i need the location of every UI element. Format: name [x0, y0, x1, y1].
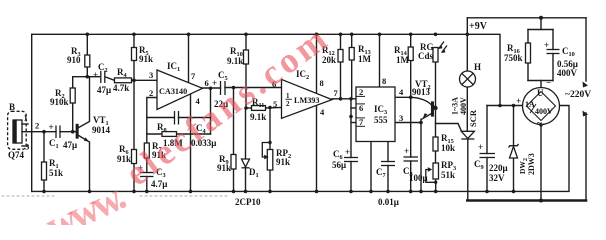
svg-text:SCR: SCR	[468, 109, 478, 127]
svg-text:LM393: LM393	[294, 96, 319, 105]
junction dots ground rail	[42, 190, 46, 194]
wire 555 pin3 output	[395, 122, 421, 124]
resistor R1 51k	[42, 162, 47, 180]
svg-text:100μ: 100μ	[409, 173, 428, 183]
svg-text:~: ~	[537, 118, 542, 128]
svg-text:910: 910	[67, 55, 81, 65]
svg-text:2DW3: 2DW3	[527, 153, 536, 175]
capacitor C5 22u	[220, 81, 222, 95]
wire R2 branch	[72, 103, 74, 132]
wire 555 pin7 stub	[351, 122, 356, 124]
junction dot pin3 emitter node	[419, 121, 423, 125]
transistor VT2 emitter arrow	[423, 113, 428, 119]
svg-text:9.1k: 9.1k	[250, 112, 266, 122]
wire DW2 branch	[513, 106, 515, 146]
wire R7 to C3	[146, 158, 148, 173]
wire SCR cathode down	[467, 139, 469, 201]
svg-text:750k: 750k	[504, 53, 523, 63]
wire C9 branch	[486, 106, 488, 154]
svg-text:910k: 910k	[50, 97, 69, 107]
wire power box right edge lower	[585, 113, 587, 201]
svg-text:H: H	[474, 62, 481, 72]
junction dot RP2 wiper tie	[268, 141, 271, 144]
svg-text:R4: R4	[117, 67, 128, 79]
svg-text:9014: 9014	[92, 125, 111, 135]
transistor VT2 9013 bar	[432, 102, 434, 116]
wire VT1 collector	[78, 77, 90, 128]
wire IC1 pin7	[188, 34, 190, 83]
wire C8 branch	[410, 97, 412, 157]
wire R15 to RP3	[435, 151, 437, 163]
svg-text:400V: 400V	[557, 68, 578, 78]
svg-text:1M: 1M	[358, 54, 372, 64]
resistor R5 91k	[132, 48, 137, 61]
wire IC1 output to C5	[203, 87, 221, 89]
thyristor SCR	[461, 131, 474, 138]
transistor VT2 emitter line	[421, 113, 433, 120]
svg-text:32V: 32V	[489, 173, 505, 183]
junction dot R2 base node	[71, 130, 75, 134]
svg-text:Cds: Cds	[418, 51, 434, 61]
wire RP2 branch	[269, 108, 271, 150]
svg-text:+: +	[212, 78, 217, 88]
svg-text:400V: 400V	[535, 107, 553, 116]
wire power box top line	[467, 17, 586, 19]
wire power heavy bottom rail	[467, 199, 586, 202]
wire VT2 base curve	[411, 97, 432, 105]
resistor R4 4.7k	[115, 78, 132, 83]
resistor R12 20k	[338, 50, 343, 63]
wire main +9V top rail	[32, 34, 500, 105]
transistor VT1 9014 bar	[76, 125, 78, 139]
wire RP3 to ground	[435, 179, 437, 191]
svg-text:4: 4	[320, 107, 325, 117]
svg-text:4.7k: 4.7k	[113, 83, 129, 93]
junction dot R10 R11 D1 node	[244, 106, 248, 110]
capacitor C3 4.7u	[140, 172, 154, 174]
resistor R15 10k	[433, 137, 438, 151]
svg-text:C7: C7	[376, 167, 386, 179]
resistor R9 91k	[231, 155, 236, 170]
wire DC plus rail	[487, 105, 523, 107]
bridge rectifier diamond	[527, 92, 556, 121]
svg-text:1: 1	[286, 92, 290, 100]
junction dot 555 pin67 tie	[349, 115, 353, 119]
wire R5 bottom to node A	[133, 61, 135, 81]
wire C1 to VT1 base	[60, 131, 76, 133]
svg-text:1M: 1M	[396, 55, 410, 65]
wire R12 branch	[340, 34, 342, 49]
wire R13 branch	[351, 34, 353, 47]
comparator IC2 LM393 triangle	[282, 79, 333, 118]
junction dot power top	[539, 16, 543, 20]
wire C5 to IC2 pin6	[225, 87, 282, 89]
terminal tick bottom	[583, 111, 589, 117]
microphone B Q74 dashed case	[8, 111, 27, 149]
wire R14 branch	[410, 34, 412, 47]
svg-text:6: 6	[205, 78, 209, 88]
wire lamp to SCR anode	[466, 87, 468, 131]
svg-text:+9V: +9V	[469, 21, 488, 32]
svg-text:3: 3	[149, 70, 153, 80]
wire C10 legs	[552, 30, 554, 50]
wire R16 legs	[527, 30, 529, 44]
svg-text:2CP10: 2CP10	[235, 197, 261, 207]
svg-text:6: 6	[359, 103, 363, 113]
wire main box left edge	[31, 34, 33, 191]
wire power box right edge upper	[585, 18, 587, 81]
svg-text:47μ: 47μ	[63, 140, 77, 150]
resistor R8 1.8M	[162, 132, 177, 137]
junction dot R3 collector node	[86, 75, 90, 79]
svg-text:51k: 51k	[441, 170, 455, 180]
svg-text:400V: 400V	[459, 97, 468, 115]
svg-text:+: +	[345, 147, 350, 157]
svg-text:4: 4	[399, 87, 404, 97]
wire feedback right side to output	[210, 88, 212, 134]
wire D1 branch	[245, 108, 247, 158]
svg-text:9013: 9013	[412, 87, 431, 97]
junction dot bridge bottom rail	[539, 199, 543, 203]
transistor VT2 collector stub	[433, 106, 435, 109]
capacitor C10 0.56u	[547, 49, 560, 51]
terminal tick top	[583, 82, 589, 88]
junction dot DC rail corner	[498, 104, 502, 108]
resistor R2 910k	[70, 88, 75, 103]
svg-text:0.01μ: 0.01μ	[378, 197, 399, 207]
svg-text:C1: C1	[49, 138, 59, 150]
wire feedback top branch C4	[147, 117, 174, 119]
wire mic pin1 stub	[22, 123, 28, 125]
svg-text:2: 2	[35, 121, 39, 131]
junction dot R13 trigger node	[349, 97, 353, 101]
wire 555 pin6 stub	[351, 107, 356, 109]
lamp H	[460, 71, 476, 87]
svg-text:91k: 91k	[139, 54, 153, 64]
wire mic pin3 stub	[22, 145, 28, 147]
svg-text:91k: 91k	[217, 163, 231, 173]
potentiometer RP2 91k	[267, 150, 273, 171]
svg-text:~220V: ~220V	[565, 90, 591, 100]
svg-text:+: +	[49, 122, 54, 132]
wire SCR gate	[436, 124, 462, 132]
svg-text:IC1: IC1	[167, 61, 180, 73]
svg-text:91k: 91k	[276, 157, 290, 167]
op-amp IC1 CA3140 triangle	[157, 70, 203, 110]
svg-text:C9: C9	[474, 159, 484, 171]
wire VT2 collector-R15 line	[435, 108, 437, 137]
svg-text:5: 5	[273, 99, 277, 109]
wire 555 ground pin1	[370, 142, 372, 192]
wire bridge bottom to heavy rail	[540, 125, 542, 201]
junction dot RP3 wiper tie	[434, 181, 437, 184]
junction dot VT2 collector	[433, 106, 437, 110]
wire R3 top	[86, 34, 88, 55]
wire collector node horizontal	[73, 76, 100, 78]
svg-text:B: B	[9, 102, 15, 112]
resistor R16 750k	[526, 43, 531, 63]
capacitor C1 47u	[55, 126, 57, 139]
wire IC1 pin2	[147, 98, 157, 144]
svg-text:D1: D1	[249, 167, 259, 179]
svg-text:56μ: 56μ	[332, 160, 346, 170]
wire VT1 emitter	[78, 135, 90, 191]
svg-text:2: 2	[286, 100, 290, 108]
svg-text:Q74: Q74	[8, 150, 25, 160]
junction dot R12 output node	[339, 97, 343, 101]
capacitor C9 220u	[480, 153, 496, 155]
zener DW2	[510, 147, 518, 159]
resistor R6 91k	[132, 150, 137, 164]
wire R11 to IC2 pin5	[266, 107, 282, 110]
capacitor C6 56u	[344, 157, 358, 159]
wire 555 pin8	[379, 34, 381, 87]
wire R16 C10 block bottom	[528, 80, 553, 82]
junction dot bridge bottom terminal	[539, 123, 542, 126]
wire IC2 pin8 pin4 vertical	[316, 34, 318, 191]
svg-text:+: +	[544, 40, 549, 50]
wire R10 bottom	[245, 64, 247, 108]
wire block to bridge	[540, 81, 542, 88]
wire VT2 emitter down	[420, 119, 422, 191]
resistor R3 910	[85, 55, 90, 67]
microphone element	[13, 120, 16, 143]
junction dot R14 pin4 node	[409, 96, 413, 100]
wire R4 to IC1 pin3	[132, 79, 158, 81]
resistor R11 9.1k	[252, 106, 266, 111]
resistor R14 1M	[408, 47, 413, 61]
wire R9 branch	[233, 88, 235, 155]
svg-text:C2: C2	[98, 62, 108, 74]
svg-text:2: 2	[359, 87, 363, 97]
svg-text:+: +	[478, 142, 483, 152]
wire feedback bottom branch R8	[147, 133, 162, 135]
svg-text:8: 8	[382, 76, 386, 86]
bridge rectifier U circle	[523, 88, 560, 125]
capacitor C8 100u	[404, 156, 419, 158]
svg-text:3: 3	[399, 113, 403, 123]
junction dot RP2 tap	[268, 106, 272, 110]
svg-text:CA3140: CA3140	[159, 87, 187, 96]
junction dot mic node	[42, 130, 46, 134]
wire IC1 pin4 down	[190, 94, 192, 191]
svg-text:+: +	[516, 96, 521, 106]
wire C7 branch	[387, 142, 389, 162]
svg-text:555: 555	[374, 115, 388, 125]
svg-text:220μ: 220μ	[489, 163, 508, 173]
wire power box left edge	[466, 18, 468, 35]
scan noise dashes left	[2, 195, 54, 197]
wire R1 branch	[43, 132, 45, 162]
svg-text:C10: C10	[562, 46, 575, 58]
wire R3 bottom to node	[86, 67, 88, 77]
junction dots top rail	[86, 33, 90, 37]
capacitor C2 47u	[100, 71, 102, 83]
wire 555 pin4 to R14 node	[395, 96, 411, 98]
svg-text:+: +	[404, 146, 409, 156]
wire lamp column top	[466, 34, 468, 71]
wire IC2 output to 555 pin2	[332, 98, 356, 100]
555 pin cell dividers	[356, 95, 365, 97]
wire R10 node to R11	[246, 107, 252, 109]
wire R5 top	[133, 34, 135, 47]
transistor VT1 emitter arrow	[84, 137, 89, 141]
svg-text:1: 1	[24, 113, 28, 123]
svg-text:www.: www.	[39, 173, 132, 225]
wire main ground bottom rail	[32, 106, 569, 192]
timer IC3 555 box	[356, 87, 395, 142]
svg-text:7: 7	[334, 88, 339, 98]
svg-text:U: U	[537, 88, 544, 98]
wire C3 to ground	[146, 177, 148, 192]
resistor R10 9.1k	[244, 50, 249, 64]
capacitor C4 0.033u	[174, 111, 176, 125]
svg-text:10k: 10k	[441, 143, 455, 153]
svg-text:9.1k: 9.1k	[227, 56, 243, 66]
svg-text:−: −	[546, 78, 551, 88]
junction dot feedback output tap	[209, 87, 213, 91]
wire trigger node down C6	[350, 99, 352, 158]
wire R16 C10 block top	[540, 18, 542, 30]
resistor R13 1M	[349, 48, 354, 61]
svg-text:47μ: 47μ	[97, 85, 111, 95]
resistor R7 91k	[144, 143, 149, 158]
svg-text:2: 2	[149, 88, 153, 98]
photoresistor RG CdS	[433, 48, 438, 63]
junction dot node A	[132, 79, 136, 83]
wire RG down to VT2 collector	[435, 62, 437, 108]
svg-text:3: 3	[25, 142, 29, 152]
svg-text:7: 7	[191, 71, 196, 81]
potentiometer RP3 51k	[433, 163, 439, 179]
wire mic output node to C1	[22, 131, 56, 133]
wire R10 top	[245, 34, 247, 50]
diode D1 2CP10	[242, 159, 250, 167]
junction dot R9 tap	[232, 86, 236, 90]
capacitor C7 0.01u	[381, 161, 395, 163]
svg-text:51k: 51k	[49, 168, 63, 178]
wire R6 node A down	[133, 80, 135, 149]
wire C2 to R4	[106, 77, 115, 80]
svg-text:8: 8	[320, 78, 324, 88]
junction dot DW2 top	[512, 104, 516, 108]
